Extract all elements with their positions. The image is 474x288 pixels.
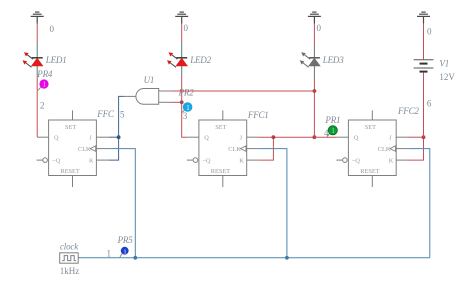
svg-text:1: 1 bbox=[186, 104, 190, 112]
LED3 arrow 1 bbox=[305, 55, 311, 59]
LED1 top lead bbox=[36, 44, 38, 58]
svg-text:1: 1 bbox=[331, 127, 335, 135]
wire FFC CLK to clock line bbox=[109, 149, 136, 258]
LED2 bottom lead bbox=[181, 66, 183, 76]
svg-text:2: 2 bbox=[40, 101, 45, 111]
svg-text:1: 1 bbox=[43, 81, 47, 89]
probe PR5 bbox=[121, 247, 129, 255]
wire LED2 down to FFC1 Q (net 3) bbox=[182, 76, 188, 137]
probe PR4 bbox=[39, 79, 48, 88]
LED2 triangle bbox=[176, 59, 187, 66]
LED3 triangle bbox=[309, 59, 320, 66]
svg-text:RESET: RESET bbox=[61, 168, 80, 175]
svg-text:K: K bbox=[389, 158, 394, 165]
wire FFC2 J to battery net bbox=[408, 136, 423, 138]
svg-text:RESET: RESET bbox=[360, 168, 379, 175]
wire ground to V1 bbox=[423, 24, 425, 60]
wire FFC1 J to net 1 bbox=[259, 136, 315, 138]
svg-text:0: 0 bbox=[50, 24, 55, 34]
LED1 arrow 1 bbox=[27, 55, 33, 59]
LED2 cathode bar bbox=[176, 57, 187, 59]
ground (net 0 above LED3) bbox=[308, 12, 321, 23]
svg-text:K: K bbox=[89, 158, 94, 165]
wire net1 to FFC2 Q bbox=[314, 136, 336, 138]
svg-text:~Q: ~Q bbox=[52, 158, 60, 165]
wire FFC2 K tie bbox=[408, 137, 423, 160]
flip-flop FFC1 bbox=[187, 110, 259, 187]
AND gate U1 (mirrored, inputs right) bbox=[136, 89, 159, 105]
svg-text:SET: SET bbox=[215, 124, 226, 131]
junction FFC2 J-K battery bbox=[422, 135, 426, 139]
junction LED2/U1 input2 bbox=[180, 100, 184, 104]
svg-text:3: 3 bbox=[183, 111, 188, 121]
svg-text:~Q: ~Q bbox=[203, 158, 211, 165]
svg-text:6: 6 bbox=[427, 99, 432, 109]
wire LED3 down to J row (net 1) bbox=[313, 79, 315, 137]
wire FFC1 CLK to clock line bbox=[259, 149, 287, 258]
wire FFC J branch bbox=[109, 136, 119, 138]
svg-text:1: 1 bbox=[107, 249, 112, 259]
svg-text:CLK: CLK bbox=[78, 146, 91, 153]
junction clock/FFC CLK bbox=[133, 256, 137, 260]
junction clock/FFC1 CLK bbox=[285, 256, 289, 260]
svg-text:RESET: RESET bbox=[211, 168, 230, 175]
LED1 triangle bbox=[32, 59, 43, 66]
U1 input pin 1 bbox=[159, 90, 171, 92]
svg-text:K: K bbox=[239, 158, 244, 165]
wire V1 to FFC2 J-K (net 6) bbox=[423, 73, 425, 138]
wire U1 input2 to LED2 line bbox=[171, 101, 182, 103]
junction FFC1 J-K bbox=[272, 135, 276, 139]
svg-text:V1: V1 bbox=[439, 58, 449, 68]
svg-text:1: 1 bbox=[123, 248, 126, 255]
svg-text:1kHz: 1kHz bbox=[60, 266, 80, 276]
svg-text:LED3: LED3 bbox=[322, 55, 344, 65]
svg-text:LED1: LED1 bbox=[45, 55, 67, 65]
junction net1 at FFC2 Q row bbox=[313, 135, 317, 139]
LED1 bottom lead bbox=[36, 66, 38, 76]
svg-text:FFC2: FFC2 bbox=[397, 106, 419, 116]
U1 input pin 2 bbox=[159, 101, 171, 103]
LED2 arrow 1 bbox=[172, 55, 178, 59]
svg-text:FFC1: FFC1 bbox=[247, 110, 269, 120]
svg-text:U1: U1 bbox=[144, 75, 155, 85]
LED3 cathode bar bbox=[309, 57, 320, 59]
svg-text:12V: 12V bbox=[439, 72, 455, 82]
LED1 cathode bar bbox=[32, 57, 43, 59]
svg-text:Q: Q bbox=[204, 135, 209, 142]
wire FFC2 CLK to clock line bbox=[408, 149, 430, 258]
svg-text:0: 0 bbox=[427, 27, 432, 37]
U1 output pin bbox=[124, 95, 136, 97]
LED2 top lead bbox=[181, 44, 183, 58]
svg-text:Q: Q bbox=[354, 135, 359, 142]
probe PR5 pointer bbox=[120, 254, 122, 258]
wire ground to LED1 bbox=[36, 24, 38, 44]
LED3 top lead bbox=[313, 44, 315, 58]
wire ground to LED2 bbox=[181, 24, 183, 44]
junction net5 J bbox=[117, 135, 121, 139]
svg-text:Q: Q bbox=[54, 135, 59, 142]
svg-text:FFC: FFC bbox=[96, 109, 115, 119]
svg-text:SET: SET bbox=[65, 124, 76, 131]
LED3 arrow 2 bbox=[303, 63, 309, 67]
flip-flop FFC2 bbox=[336, 110, 408, 187]
LED3 bottom lead bbox=[313, 66, 315, 79]
svg-text:CLK: CLK bbox=[378, 146, 391, 153]
battery V1 bbox=[414, 60, 434, 72]
svg-text:5: 5 bbox=[120, 109, 125, 119]
svg-text:0: 0 bbox=[317, 23, 322, 33]
svg-text:PR5: PR5 bbox=[117, 235, 134, 245]
wire LED1 to FFC Q (net 2) bbox=[36, 76, 38, 137]
junction LED3/U1 output row bbox=[313, 89, 317, 93]
probe PR2 pointer bbox=[182, 110, 184, 112]
probe PR2 bbox=[183, 102, 193, 112]
LED1 arrow 2 bbox=[26, 63, 32, 67]
svg-text:PR4: PR4 bbox=[36, 69, 53, 79]
svg-text:SET: SET bbox=[365, 124, 376, 131]
svg-text:4: 4 bbox=[324, 128, 329, 138]
probe PR1 bbox=[328, 126, 337, 135]
probe PR4 pointer bbox=[38, 87, 41, 90]
wire U1 input1 to LED3 line bbox=[171, 90, 315, 92]
svg-text:clock: clock bbox=[60, 241, 79, 251]
svg-text:LED2: LED2 bbox=[189, 55, 211, 65]
LED2 arrow 2 bbox=[170, 63, 176, 67]
ground (net 0 above LED1) bbox=[31, 12, 44, 23]
ground (net 0 above V1) bbox=[417, 12, 430, 23]
wire ground to LED3 bbox=[313, 24, 315, 45]
clock source bbox=[60, 253, 78, 263]
probe PR1 pointer bbox=[327, 133, 329, 136]
svg-text:PR1: PR1 bbox=[324, 115, 340, 125]
wire FFC1 K tie bbox=[259, 137, 274, 160]
svg-text:~Q: ~Q bbox=[352, 158, 360, 165]
wire U1 output to FFC J-K (net 5) bbox=[109, 96, 124, 160]
flip-flop FFC bbox=[37, 110, 109, 187]
ground (net 0 above LED2) bbox=[175, 12, 188, 23]
svg-text:0: 0 bbox=[184, 23, 189, 33]
clock wire (net 1) bbox=[78, 257, 430, 259]
svg-text:CLK: CLK bbox=[228, 146, 241, 153]
svg-text:PR2: PR2 bbox=[178, 87, 195, 97]
